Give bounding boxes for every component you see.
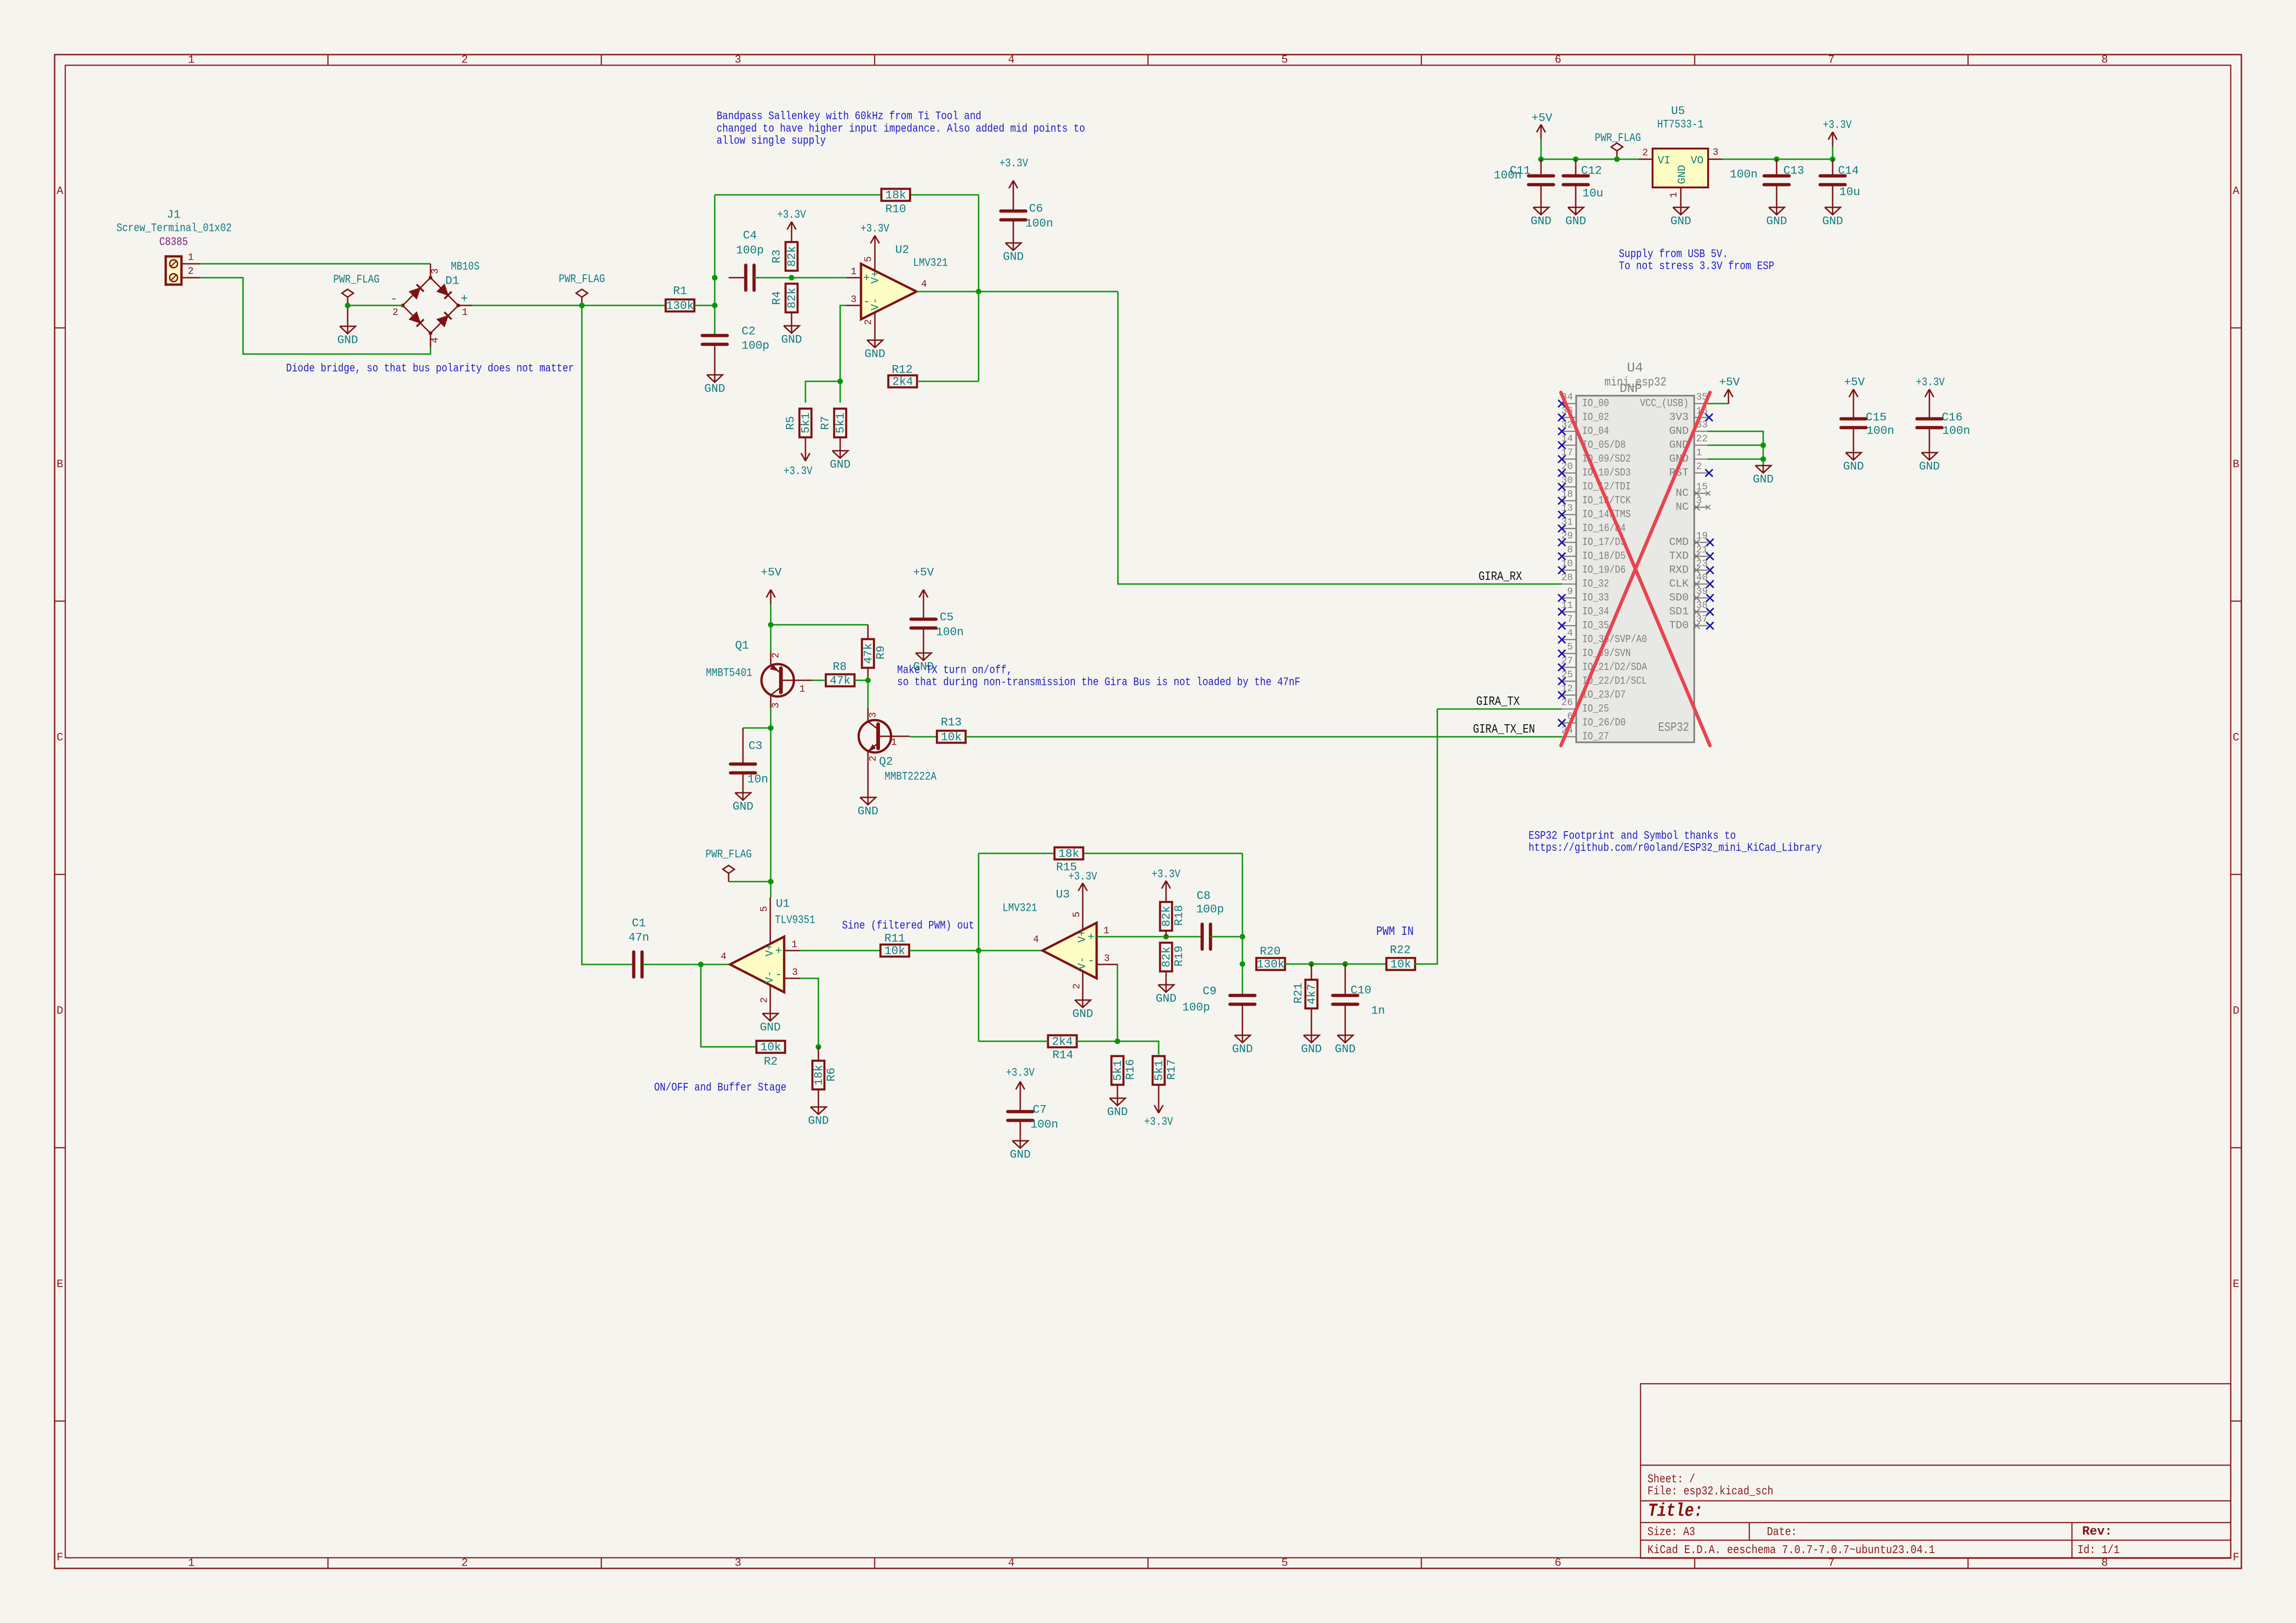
svg-text:C15: C15: [1865, 411, 1886, 424]
capacitor C14 10u: [1820, 145, 1860, 200]
svg-text:+3.3V: +3.3V: [1152, 868, 1180, 881]
svg-text:+3.3V: +3.3V: [1823, 118, 1852, 132]
junction U1 supply: [768, 879, 774, 884]
svg-text:3V3: 3V3: [1669, 411, 1689, 424]
svg-text:R3: R3: [770, 249, 784, 263]
svg-text:5: 5: [864, 256, 874, 262]
svg-text:Make TX turn on/off,: Make TX turn on/off,: [897, 664, 1012, 677]
svg-text:5: 5: [1072, 912, 1083, 918]
svg-text:File: esp32.kicad_sch: File: esp32.kicad_sch: [1647, 1484, 1773, 1498]
svg-text:C: C: [2233, 732, 2239, 744]
svg-text:so that during non-transmissio: so that during non-transmission the Gira…: [897, 676, 1300, 689]
svg-text:2: 2: [1072, 983, 1083, 989]
resistor R17 5k1: [1153, 1056, 1179, 1099]
svg-text:3: 3: [792, 968, 798, 978]
svg-text:Q2: Q2: [879, 755, 893, 769]
svg-text:CMD: CMD: [1669, 536, 1689, 549]
junction Q2 collector node: [865, 678, 871, 683]
junction bus minus: [345, 303, 350, 308]
transistor Q1 MMBT5401: [706, 639, 812, 709]
svg-text:IO_23/D7: IO_23/D7: [1582, 689, 1626, 702]
svg-text:10u: 10u: [1582, 187, 1603, 200]
svg-text:R11: R11: [884, 932, 905, 945]
svg-text:R7: R7: [819, 416, 832, 430]
svg-text:11: 11: [1561, 601, 1573, 611]
power +5V U4: [1719, 376, 1740, 404]
svg-text:MMBT5401: MMBT5401: [706, 666, 752, 680]
svg-text:1: 1: [1696, 448, 1702, 459]
ground U1: [760, 1013, 780, 1034]
svg-text:To not stress 3.3V from ESP: To not stress 3.3V from ESP: [1619, 260, 1774, 273]
svg-text:2: 2: [462, 1557, 468, 1570]
svg-text:4: 4: [1033, 935, 1039, 945]
svg-text:8: 8: [2102, 1557, 2108, 1570]
svg-text:1: 1: [188, 253, 194, 263]
svg-text:GND: GND: [1670, 215, 1691, 228]
capacitor C4 100p: [729, 229, 768, 291]
svg-text:-: -: [1087, 954, 1094, 968]
svg-text:R18: R18: [1173, 905, 1186, 926]
svg-text:IO_12/TDI: IO_12/TDI: [1582, 481, 1631, 493]
power +3.3V R3: [777, 208, 806, 236]
svg-text:+3.3V: +3.3V: [999, 157, 1028, 170]
wire R15 top: [979, 853, 1242, 854]
svg-text:LMV321: LMV321: [1003, 902, 1037, 915]
svg-text:17: 17: [1561, 448, 1573, 459]
svg-text:25: 25: [1561, 670, 1573, 681]
ground Q2: [857, 770, 878, 818]
svg-text:31: 31: [1561, 517, 1573, 528]
capacitor C3 10n: [730, 728, 771, 786]
svg-text:2: 2: [188, 267, 194, 277]
svg-text:100n: 100n: [1730, 168, 1758, 181]
resistor R16 5k1: [1111, 1056, 1137, 1091]
svg-text:3: 3: [771, 703, 782, 709]
svg-text:37: 37: [1696, 615, 1708, 625]
power +3.3V C6: [999, 157, 1028, 195]
svg-text:C6: C6: [1029, 202, 1043, 216]
svg-text:10u: 10u: [1839, 186, 1860, 199]
svg-text:100p: 100p: [736, 244, 764, 257]
svg-text:GND: GND: [337, 334, 358, 347]
wire GIRA_RX: [1118, 292, 1562, 584]
svg-text:47k: 47k: [830, 674, 850, 688]
svg-text:10k: 10k: [760, 1041, 781, 1054]
svg-text:5k1: 5k1: [1153, 1060, 1166, 1081]
svg-text:R1: R1: [673, 285, 687, 298]
regulator U5 HT7533-1: [1639, 105, 1722, 203]
note make tx: [897, 664, 1300, 689]
svg-text:+5V: +5V: [1719, 376, 1740, 389]
svg-text:Id: 1/1: Id: 1/1: [2078, 1543, 2120, 1557]
ground C11: [1530, 200, 1551, 228]
ESP32 U4 right pins: [1640, 392, 1714, 632]
svg-text:changed to have higher input i: changed to have higher input impedance. …: [717, 122, 1085, 136]
svg-text:30: 30: [1561, 476, 1573, 486]
capacitor C1 47n: [628, 917, 649, 977]
PWR_FLAG bus input: [333, 273, 380, 306]
svg-text:100p: 100p: [742, 339, 769, 353]
svg-text:GND: GND: [1301, 1043, 1322, 1056]
svg-text:Diode bridge, so that bus pola: Diode bridge, so that bus polarity does …: [286, 362, 574, 375]
svg-text:GND: GND: [1669, 425, 1689, 438]
svg-text:1: 1: [891, 738, 897, 748]
svg-text:3: 3: [1104, 954, 1110, 964]
svg-text:6: 6: [1555, 54, 1561, 67]
svg-text:32: 32: [1561, 420, 1573, 431]
wire R5 branch: [805, 381, 840, 403]
svg-text:2k4: 2k4: [1052, 1035, 1073, 1049]
svg-text:allow single supply: allow single supply: [717, 134, 826, 148]
svg-text:Date:: Date:: [1767, 1525, 1797, 1539]
svg-text:GND: GND: [830, 458, 850, 472]
svg-text:1: 1: [1669, 192, 1680, 198]
svg-text:R5: R5: [784, 416, 798, 430]
svg-text:J1: J1: [167, 208, 181, 222]
svg-text:+: +: [775, 945, 782, 958]
svg-text:IO_18/D5: IO_18/D5: [1582, 550, 1626, 563]
ground R21: [1301, 1028, 1322, 1056]
svg-text:IO_05/D8: IO_05/D8: [1582, 439, 1626, 452]
svg-text:A: A: [2233, 185, 2240, 198]
wire R16 R17 branch: [1117, 1041, 1159, 1055]
ground C6: [1003, 236, 1023, 264]
svg-text:18k: 18k: [885, 189, 906, 202]
svg-text:GIRA_TX_EN: GIRA_TX_EN: [1473, 723, 1535, 737]
ground C13: [1766, 200, 1787, 228]
svg-text:100n: 100n: [1866, 424, 1894, 438]
svg-text:R4: R4: [770, 291, 784, 305]
junction R21 node: [1309, 961, 1314, 967]
junction +5V rail: [768, 622, 774, 628]
ground C10: [1335, 1028, 1355, 1056]
svg-text:IO_39/SVN: IO_39/SVN: [1582, 647, 1631, 660]
svg-text:PWR_FLAG: PWR_FLAG: [705, 848, 752, 861]
svg-text:IO_19/D6: IO_19/D6: [1582, 564, 1626, 577]
svg-text:ESP32: ESP32: [1658, 721, 1689, 735]
ground R16: [1107, 1091, 1128, 1119]
ground R19: [1155, 977, 1176, 1006]
svg-text:+3.3V: +3.3V: [1006, 1066, 1035, 1080]
svg-text:100n: 100n: [1025, 217, 1053, 230]
svg-text:2: 2: [462, 54, 468, 67]
svg-text:+5V: +5V: [761, 566, 781, 579]
svg-text:D: D: [2233, 1005, 2239, 1017]
svg-text:100n: 100n: [1942, 424, 1970, 438]
junction R2 R6 node: [816, 1044, 821, 1050]
svg-text:V-: V-: [1076, 957, 1088, 970]
svg-text:1n: 1n: [1371, 1004, 1385, 1018]
svg-text:VCC_(USB): VCC_(USB): [1640, 398, 1689, 410]
svg-text:V+: V+: [764, 944, 776, 957]
svg-text:5: 5: [1281, 1557, 1288, 1570]
resistor R3 82k: [770, 236, 799, 271]
svg-text:V-: V-: [869, 298, 881, 311]
ground C2: [704, 367, 725, 396]
junction U2 output: [976, 289, 981, 294]
junction R20 node: [1240, 961, 1245, 967]
wire R1 to C4 node: [694, 305, 715, 306]
power +3.3V U3: [1068, 870, 1097, 898]
junction U5 flag: [1614, 156, 1620, 162]
wire Q1 base to R8: [812, 680, 826, 681]
wire R7 branch: [840, 381, 841, 403]
junction R18 R19 node: [1163, 934, 1169, 939]
svg-text:20: 20: [1561, 462, 1573, 473]
junction C13: [1774, 156, 1779, 162]
svg-text:2: 2: [1696, 462, 1702, 473]
svg-text:3: 3: [868, 712, 879, 718]
svg-text:R8: R8: [833, 660, 847, 674]
wire C4 to U2 pin1: [754, 277, 861, 279]
connector J1 Screw_Terminal_01x02: [117, 208, 232, 285]
wire J1.2 to bridge pin4: [200, 278, 430, 354]
svg-text:U3: U3: [1056, 888, 1070, 902]
svg-text:8: 8: [1567, 545, 1573, 556]
ground bus input: [337, 305, 358, 347]
svg-text:2: 2: [760, 997, 770, 1003]
ground C16: [1919, 445, 1940, 473]
svg-text:82k: 82k: [786, 246, 799, 267]
svg-text:+3.3V: +3.3V: [784, 465, 812, 478]
power +5V C15: [1844, 376, 1865, 404]
power +3.3V down R17: [1144, 1099, 1173, 1129]
svg-text:Size: A3: Size: A3: [1647, 1525, 1695, 1539]
svg-text:B: B: [2233, 458, 2239, 471]
svg-text:V+: V+: [1076, 930, 1088, 943]
svg-text:10: 10: [1561, 559, 1573, 570]
svg-text:5: 5: [1567, 642, 1573, 653]
svg-text:2: 2: [393, 308, 399, 318]
svg-text:Rev:: Rev:: [2082, 1525, 2112, 1539]
junction U4 GND 2: [1760, 456, 1766, 462]
svg-text:GND: GND: [857, 805, 878, 818]
svg-text:47k: 47k: [862, 643, 875, 664]
svg-text:GND: GND: [732, 800, 753, 814]
svg-text:IO_33: IO_33: [1582, 592, 1609, 604]
svg-text:1: 1: [188, 54, 194, 67]
svg-text:82k: 82k: [1160, 906, 1173, 927]
resistor R10 18k: [881, 189, 910, 216]
svg-text:12: 12: [1561, 684, 1573, 695]
power +3.3V R18: [1152, 868, 1180, 895]
svg-text:21: 21: [1696, 545, 1708, 556]
diode bridge D1 MB10S: [389, 260, 480, 348]
svg-text:100n: 100n: [1030, 1118, 1058, 1132]
power +3.3V U5 out: [1823, 118, 1852, 147]
svg-text:VO: VO: [1691, 155, 1703, 167]
power +5V Q1: [761, 566, 781, 604]
resistor R8 47k: [826, 660, 855, 688]
capacitor C16 100n: [1917, 404, 1970, 445]
svg-text:GND: GND: [1010, 1148, 1030, 1162]
svg-text:+3.3V: +3.3V: [1068, 870, 1097, 883]
resistor R14 2k4: [1048, 1035, 1077, 1062]
svg-text:IO_35: IO_35: [1582, 620, 1609, 632]
svg-text:GND: GND: [1766, 215, 1787, 228]
resistor R12 2k4: [888, 363, 917, 389]
wire +5V to R9: [771, 624, 868, 626]
svg-text:GND: GND: [1232, 1043, 1253, 1056]
svg-text:19: 19: [1696, 531, 1708, 542]
ground C9: [1232, 1028, 1253, 1056]
resistor R11 10k: [880, 932, 909, 958]
op-amp U3 LMV321: [1003, 888, 1118, 999]
wire +3.3V stub: [1832, 146, 1834, 159]
resistor R6 18k: [812, 1047, 838, 1100]
svg-text:B: B: [56, 458, 63, 471]
svg-text:GND: GND: [1107, 1106, 1128, 1119]
wire +5V rail: [770, 604, 772, 652]
wire R11 to U3: [910, 950, 1042, 951]
junction C14: [1830, 156, 1835, 162]
svg-text:R2: R2: [764, 1055, 778, 1069]
svg-text:47n: 47n: [628, 931, 649, 945]
PWR_FLAG U5 input: [1595, 131, 1641, 160]
svg-text:+: +: [1087, 931, 1094, 944]
resistor R20 130k: [1256, 945, 1285, 971]
capacitor C12 10u: [1563, 159, 1603, 200]
svg-text:18k: 18k: [1058, 847, 1079, 861]
svg-text:DNP: DNP: [1620, 382, 1642, 396]
ground C12: [1565, 200, 1586, 228]
power +5V C5: [913, 566, 934, 604]
svg-text:6: 6: [1555, 1557, 1561, 1570]
wire R14 right to U3 pin3: [1076, 964, 1117, 1041]
svg-text:82k: 82k: [1160, 946, 1173, 967]
svg-text:5k1: 5k1: [834, 412, 848, 433]
svg-text:+5V: +5V: [1844, 376, 1865, 389]
junction R12 node: [837, 379, 843, 384]
svg-text:GIRA_TX: GIRA_TX: [1476, 695, 1520, 709]
capacitor C6 100n: [1001, 195, 1053, 236]
wire GIRA_TX: [1437, 709, 1562, 710]
svg-text:GND: GND: [1753, 473, 1773, 486]
svg-text:IO_36/SVP/A0: IO_36/SVP/A0: [1582, 634, 1647, 646]
power +3.3V down R5: [784, 447, 812, 478]
svg-text:C16: C16: [1941, 411, 1962, 424]
svg-text:GND: GND: [1530, 215, 1551, 228]
resistor R2 10k: [756, 1041, 785, 1069]
power +5V U5: [1531, 112, 1552, 139]
svg-text:D: D: [56, 1005, 63, 1017]
svg-text:4: 4: [1008, 54, 1015, 67]
svg-text:100p: 100p: [1182, 1001, 1210, 1014]
power +3.3V C16: [1916, 376, 1945, 404]
svg-text:29: 29: [1561, 531, 1573, 542]
svg-text:NC: NC: [1676, 501, 1689, 514]
svg-text:C7: C7: [1033, 1103, 1047, 1117]
wire bus vertical to C1: [582, 305, 634, 964]
wire Q1 collector down to U1 V+: [770, 708, 772, 897]
svg-text:Q1: Q1: [735, 639, 749, 653]
ESP32 module U4 mini_esp32 DNP body: [1576, 361, 1694, 743]
capacitor C10 1n: [1333, 964, 1385, 1028]
svg-text:TD0: TD0: [1669, 620, 1689, 632]
svg-text:5: 5: [760, 906, 770, 912]
svg-text:4: 4: [430, 337, 441, 343]
wire filter input vertical: [714, 195, 716, 336]
svg-text:130k: 130k: [1257, 958, 1285, 971]
resistor R19 82k: [1160, 943, 1186, 977]
svg-text:Supply from USB 5V.: Supply from USB 5V.: [1619, 248, 1728, 261]
svg-text:VI: VI: [1658, 155, 1671, 167]
wire U2 pin3 net: [840, 305, 847, 381]
wire R2 to U1 out: [701, 964, 756, 1047]
svg-text:PWM IN: PWM IN: [1376, 925, 1414, 939]
svg-text:D1: D1: [445, 274, 459, 288]
svg-text:3: 3: [1713, 148, 1719, 158]
svg-text:F: F: [2233, 1552, 2239, 1564]
svg-text:V+: V+: [869, 271, 881, 284]
svg-text:A: A: [56, 185, 63, 198]
PWR_FLAG bridge output: [559, 273, 605, 306]
junction R1 node: [712, 303, 717, 308]
svg-text:U2: U2: [895, 243, 909, 257]
svg-text:4: 4: [1567, 628, 1573, 639]
wire U3 feedback left: [978, 853, 980, 1041]
svg-text:R10: R10: [885, 203, 906, 216]
capacitor C15 100n: [1841, 404, 1894, 445]
resistor R7 5k1: [819, 409, 848, 443]
capacitor C8 100p: [1196, 889, 1224, 950]
svg-text:40: 40: [1696, 573, 1708, 584]
svg-text:U4: U4: [1627, 361, 1643, 376]
wire J1.1 to bridge pin3: [200, 263, 430, 265]
junction R14 node: [1115, 1038, 1120, 1044]
svg-text:https://github.com/r0oland/ESP: https://github.com/r0oland/ESP32_mini_Ki…: [1529, 841, 1822, 855]
svg-text:GND: GND: [704, 382, 725, 396]
svg-text:+5V: +5V: [913, 566, 934, 579]
svg-text:130k: 130k: [666, 299, 694, 313]
svg-text:GND: GND: [781, 333, 802, 347]
svg-text:3: 3: [735, 1557, 741, 1570]
svg-text:9: 9: [1567, 587, 1573, 597]
svg-text:39: 39: [1696, 587, 1708, 597]
svg-text:23: 23: [1696, 559, 1708, 570]
svg-text:100n: 100n: [936, 626, 964, 639]
ground U4: [1753, 465, 1773, 486]
svg-text:10k: 10k: [1390, 958, 1411, 971]
svg-text:10k: 10k: [884, 945, 905, 958]
svg-text:GND: GND: [808, 1114, 829, 1128]
svg-text:+3.3V: +3.3V: [1916, 376, 1945, 389]
op-amp U1 TLV9351: [721, 897, 815, 1013]
svg-text:GND: GND: [1072, 1007, 1093, 1021]
wire GIRA_TX_EN: [966, 736, 1562, 738]
svg-text:10k: 10k: [941, 731, 961, 744]
svg-text:C: C: [56, 732, 63, 744]
svg-text:C12: C12: [1581, 164, 1602, 178]
svg-text:82k: 82k: [786, 287, 799, 308]
svg-text:V-: V-: [764, 970, 776, 983]
svg-text:GND: GND: [760, 1021, 780, 1034]
svg-text:100n: 100n: [1494, 169, 1522, 182]
svg-text:28: 28: [1561, 573, 1573, 584]
svg-text:RXD: RXD: [1669, 564, 1689, 577]
ground U2: [864, 339, 885, 361]
svg-text:IO_22/D1/SCL: IO_22/D1/SCL: [1582, 675, 1647, 688]
svg-text:IO_14/TMS: IO_14/TMS: [1582, 509, 1631, 521]
resistor R4 82k: [770, 284, 799, 318]
svg-text:TLV9351: TLV9351: [775, 914, 815, 927]
svg-text:7: 7: [1828, 54, 1834, 67]
note supply: [1619, 248, 1774, 273]
svg-text:IO_10/SD3: IO_10/SD3: [1582, 467, 1631, 479]
resistor R15 18k: [1054, 847, 1083, 874]
wire U3 pin1 to divider: [1097, 936, 1202, 938]
junction C8 node: [1240, 934, 1245, 939]
